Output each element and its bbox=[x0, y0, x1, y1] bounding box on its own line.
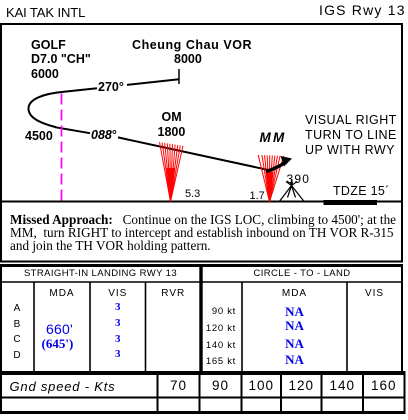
gnd speed 70 bbox=[158, 379, 200, 393]
table center divider bbox=[199, 264, 202, 373]
title IGS Rwy 13 bbox=[319, 3, 406, 17]
gnd speed 90 bbox=[200, 379, 242, 393]
table right border upper bbox=[401, 264, 403, 373]
gnd speed label bbox=[10, 380, 116, 393]
obstacle tower dot bbox=[290, 182, 293, 185]
circle MDA NA row C bbox=[242, 337, 347, 350]
label 390 bbox=[287, 173, 311, 185]
label 5.3 bbox=[185, 189, 200, 200]
label D7.0 CH bbox=[31, 53, 91, 66]
label visual right turn bbox=[305, 113, 397, 158]
title KAI TAK INTL bbox=[6, 6, 85, 19]
MDA 645 bbox=[42, 337, 74, 350]
label Cheung Chau VOR bbox=[132, 39, 252, 52]
VIS 3 row C bbox=[90, 334, 146, 345]
label 270 deg bbox=[98, 81, 124, 94]
label 8000 bbox=[174, 53, 202, 66]
row letter A bbox=[0, 304, 34, 314]
wire 088 inbound segment left bbox=[55, 127, 90, 133]
label GOLF bbox=[31, 39, 66, 52]
label 4500 bbox=[25, 130, 53, 143]
column line MDA/VIS bbox=[89, 282, 91, 373]
column header MDA left bbox=[34, 289, 90, 299]
label 6000 bbox=[31, 68, 59, 81]
row letter C bbox=[0, 335, 34, 345]
chart box border bbox=[1, 24, 402, 202]
gnd speed 160 bbox=[363, 379, 405, 393]
gnd col line 2 bbox=[199, 375, 201, 411]
procedure turn arc bbox=[29, 92, 65, 127]
gnd col line 6 bbox=[362, 375, 364, 411]
label MM bbox=[260, 131, 287, 145]
VIS 3 row D bbox=[90, 349, 146, 360]
gnd speed 140 bbox=[322, 379, 364, 393]
missed approach box border bbox=[1, 202, 402, 262]
wire 270 outbound segment right bbox=[127, 79, 179, 85]
table header straight-in bbox=[0, 269, 201, 279]
label TDZE 15 bbox=[333, 185, 390, 198]
visual turn arrow head bbox=[281, 156, 293, 167]
Cheung Chau VOR fix tick bbox=[178, 69, 180, 84]
row letter D bbox=[0, 351, 34, 361]
gnd col line 5 bbox=[321, 375, 323, 411]
gnd speed 120 bbox=[281, 379, 322, 393]
gnd col line 1 bbox=[157, 375, 159, 411]
MM marker fan bbox=[258, 155, 284, 202]
VIS 3 row A bbox=[90, 302, 146, 313]
MM marker fan core bbox=[266, 172, 274, 202]
column header MDA right bbox=[242, 289, 347, 299]
gnd col line 3 bbox=[241, 375, 243, 411]
OM marker fan core bbox=[166, 168, 175, 202]
speed 120 kt bbox=[200, 324, 236, 334]
table header circle-to-land bbox=[201, 269, 403, 279]
column header RVR bbox=[146, 289, 202, 299]
column line MDA/VIS right bbox=[346, 282, 348, 373]
label 1.7 bbox=[250, 191, 265, 202]
table left border bbox=[0, 264, 2, 414]
circle MDA NA row D bbox=[242, 353, 347, 366]
column header VIS right bbox=[347, 289, 402, 299]
column line VIS/RVR bbox=[145, 282, 147, 373]
magenta dashed leadline bbox=[61, 94, 63, 202]
speed 90 kt bbox=[200, 307, 236, 317]
column line speeds/MDA right bbox=[241, 282, 243, 373]
wire glide path 088 inbound to MM bbox=[118, 137, 268, 170]
table top thick border bbox=[0, 264, 403, 267]
gnd col line 4 bbox=[280, 375, 282, 411]
table header underline bbox=[0, 281, 403, 283]
column line letters/MDA bbox=[33, 282, 35, 373]
circle MDA NA row A bbox=[242, 305, 347, 318]
MDA 660 bbox=[46, 322, 73, 336]
circle MDA NA row B bbox=[242, 319, 347, 332]
gnd speed table top thick border bbox=[0, 371, 406, 375]
speed 140 kt bbox=[200, 341, 236, 351]
OM marker fan bbox=[160, 142, 184, 201]
obstacle tower 390 bbox=[279, 180, 305, 203]
label 1800 bbox=[158, 126, 186, 139]
column header VIS left bbox=[90, 289, 146, 299]
speed 165 kt bbox=[200, 357, 236, 367]
table bottom thick border bbox=[0, 411, 406, 414]
row letter B bbox=[0, 320, 34, 330]
table right border lower bbox=[404, 373, 406, 414]
gnd speed row underline bbox=[0, 397, 406, 399]
missed approach text bbox=[10, 213, 396, 252]
runway bar bbox=[324, 200, 378, 205]
label OM bbox=[162, 111, 182, 124]
wire 270 outbound segment left bbox=[64, 88, 97, 92]
gnd speed 100 bbox=[242, 379, 282, 393]
visual turn arrow tail bbox=[266, 161, 287, 172]
label 088 deg bbox=[91, 129, 117, 142]
VIS 3 row B bbox=[90, 318, 146, 329]
